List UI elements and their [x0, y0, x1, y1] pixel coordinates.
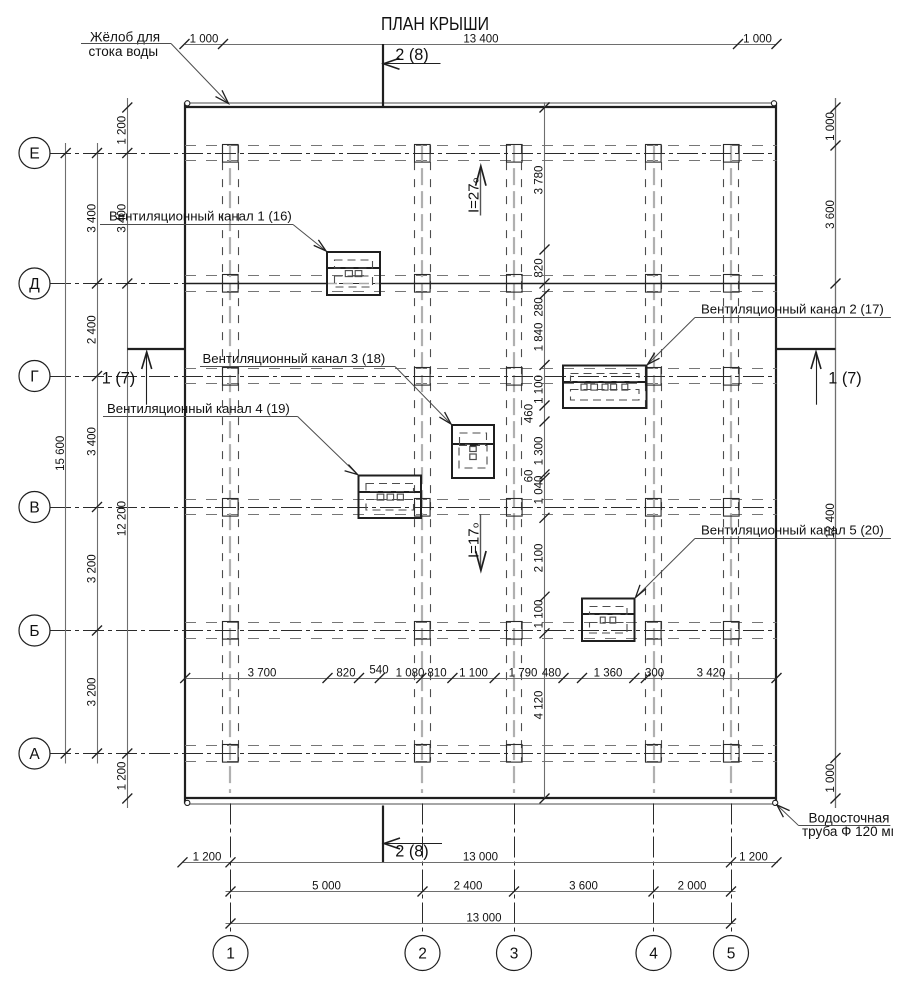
ventilation duct box 5 (20) — [582, 599, 635, 642]
svg-text:ПЛАН КРЫШИ: ПЛАН КРЫШИ — [381, 13, 489, 34]
svg-text:280: 280 — [534, 297, 546, 316]
svg-text:3 600: 3 600 — [825, 200, 837, 229]
svg-text:2: 2 — [418, 946, 427, 963]
note gutter Жёлоб для стока воды — [81, 30, 229, 104]
svg-text:Вентиляционный канал 4 (19): Вентиляционный канал 4 (19) — [107, 401, 290, 416]
dimension line right (1000/3600/12400/1000) — [825, 98, 841, 808]
svg-text:1: 1 — [226, 946, 235, 963]
axis line 3 — [514, 804, 516, 936]
grid bubble 1 — [213, 936, 248, 971]
label vent duct 2 (17) — [648, 302, 891, 365]
svg-text:2 400: 2 400 — [86, 315, 98, 344]
axis line А — [50, 753, 777, 755]
svg-text:1 000: 1 000 — [190, 34, 219, 46]
svg-text:А: А — [29, 746, 40, 763]
svg-text:2 100: 2 100 — [534, 544, 546, 573]
dimension line left axis spacings — [86, 143, 102, 764]
svg-text:I=17: I=17 — [465, 528, 482, 558]
dimension row bottom 2 (5000/2400/3600/2000) — [226, 881, 737, 897]
axis line Д — [50, 283, 777, 285]
ventilation duct box 1 (16) — [327, 252, 380, 295]
svg-text:1 300: 1 300 — [534, 437, 546, 466]
drain funnel bottom-right — [773, 800, 778, 805]
svg-text:1 000: 1 000 — [743, 34, 772, 46]
svg-text:В: В — [29, 500, 39, 517]
svg-text:Д: Д — [29, 276, 40, 293]
svg-text:2 (8): 2 (8) — [395, 46, 428, 64]
hidden wall band column 1 — [223, 145, 239, 793]
columns at grid intersections — [223, 145, 740, 763]
svg-text:2 (8): 2 (8) — [395, 843, 428, 861]
svg-text:1 200: 1 200 — [739, 852, 768, 864]
ventilation duct box 2 (17) — [563, 366, 647, 409]
svg-text:3 400: 3 400 — [86, 204, 98, 233]
label vent duct 4 (19) — [103, 401, 358, 475]
roof edge left — [184, 103, 186, 804]
note drain pipe Водосточная труба Ф 120 мм — [777, 805, 910, 840]
axis line 2 — [422, 804, 424, 936]
svg-text:1 (7): 1 (7) — [828, 370, 861, 388]
svg-text:460: 460 — [524, 404, 536, 423]
svg-text:1 040: 1 040 — [534, 476, 546, 505]
svg-text:1 200: 1 200 — [117, 116, 129, 145]
svg-text:3 600: 3 600 — [569, 881, 598, 893]
hidden wall edges row В — [185, 500, 777, 515]
label vent duct 5 (20) — [636, 523, 891, 598]
internal dimension chain y=678 (3700..3420) — [180, 665, 781, 684]
grid bubble Б — [19, 615, 50, 646]
svg-text:о: о — [470, 523, 481, 528]
grid bubble 5 — [714, 936, 749, 971]
drain funnel top-right — [771, 101, 776, 106]
drain funnel bottom-left — [185, 800, 190, 805]
hidden wall edges row Д — [185, 276, 777, 292]
hidden wall edges row А — [185, 746, 777, 762]
svg-text:1 100: 1 100 — [459, 668, 488, 680]
axis line Г — [50, 376, 777, 378]
svg-text:1 200: 1 200 — [117, 762, 129, 791]
roof gutter thin outline top — [185, 102, 777, 104]
svg-text:4 120: 4 120 — [534, 691, 546, 720]
ventilation duct box 4 (19) — [359, 476, 422, 519]
svg-text:4: 4 — [649, 946, 658, 963]
svg-text:5: 5 — [727, 946, 736, 963]
svg-text:3 780: 3 780 — [534, 166, 546, 195]
svg-text:1 100: 1 100 — [534, 375, 546, 404]
roof gutter thin outline bottom — [185, 803, 777, 805]
svg-text:труба Ф 120 мм: труба Ф 120 мм — [802, 824, 900, 839]
hidden wall edges row Г — [185, 369, 777, 384]
svg-text:Вентиляционный канал 3 (18): Вентиляционный канал 3 (18) — [203, 351, 386, 366]
grid bubble А — [19, 738, 50, 769]
svg-text:1 790: 1 790 — [509, 668, 538, 680]
section mark 2 (8) bottom — [383, 806, 442, 863]
dimension line top (1000 / 13400 / 1000) — [180, 34, 782, 50]
grid bubble Г — [19, 361, 50, 392]
svg-text:2 400: 2 400 — [454, 881, 483, 893]
roof edge top — [185, 106, 777, 108]
grid bubble 2 — [405, 936, 440, 971]
grid bubble Д — [19, 268, 50, 299]
grid bubble Е — [19, 138, 50, 169]
svg-text:3: 3 — [510, 946, 519, 963]
svg-text:Вентиляционный канал 1 (16): Вентиляционный канал 1 (16) — [109, 209, 292, 224]
svg-text:Е: Е — [29, 146, 39, 163]
axis line 4 — [653, 804, 655, 936]
roof edge bottom — [185, 797, 777, 799]
section mark 2 (8) top — [383, 44, 441, 108]
svg-text:820: 820 — [336, 668, 355, 680]
section mark 1 (7) left — [102, 349, 185, 405]
svg-text:I=27: I=27 — [465, 183, 482, 213]
axis line 1 — [230, 804, 232, 936]
hidden wall edges row Е — [185, 146, 777, 161]
hidden wall band column 3 — [507, 145, 522, 793]
svg-text:3 200: 3 200 — [86, 554, 98, 583]
svg-text:12 200: 12 200 — [117, 501, 129, 536]
dimension line left total 15600 — [55, 143, 71, 764]
svg-text:1 360: 1 360 — [594, 668, 623, 680]
roof edge right — [775, 103, 777, 804]
svg-text:13 000: 13 000 — [463, 852, 498, 864]
svg-text:3 200: 3 200 — [86, 678, 98, 707]
svg-text:540: 540 — [369, 665, 388, 677]
svg-text:2 000: 2 000 — [678, 881, 707, 893]
label vent duct 1 (16) — [100, 209, 326, 252]
slope arrow I=17 down — [465, 514, 486, 571]
svg-text:300: 300 — [645, 668, 664, 680]
svg-text:стока воды: стока воды — [89, 44, 159, 59]
dimension line left overhangs (1200/3400/12200/1200) — [117, 98, 133, 808]
svg-text:Б: Б — [29, 623, 39, 640]
svg-text:1 080: 1 080 — [396, 668, 425, 680]
svg-text:Вентиляционный канал 2 (17): Вентиляционный канал 2 (17) — [701, 302, 884, 317]
dimension row bottom 3 (13000) — [226, 913, 737, 929]
axis line Е — [50, 153, 777, 155]
title ПЛАН КРЫШИ — [381, 13, 489, 34]
svg-text:1 840: 1 840 — [534, 323, 546, 352]
svg-text:1 000: 1 000 — [825, 112, 837, 141]
svg-text:Вентиляционный канал 5 (20): Вентиляционный канал 5 (20) — [701, 523, 884, 538]
svg-text:3 400: 3 400 — [86, 427, 98, 456]
svg-text:15 600: 15 600 — [55, 436, 67, 471]
svg-text:1 100: 1 100 — [534, 600, 546, 629]
svg-text:о: о — [470, 178, 481, 183]
svg-text:3 700: 3 700 — [248, 668, 277, 680]
svg-text:13 400: 13 400 — [463, 34, 498, 46]
svg-text:810: 810 — [427, 668, 446, 680]
label vent duct 3 (18) — [200, 351, 451, 424]
svg-text:1 (7): 1 (7) — [102, 370, 135, 388]
axis line 5 — [731, 804, 733, 936]
svg-text:1 000: 1 000 — [825, 764, 837, 793]
grid bubble 4 — [636, 936, 671, 971]
axis line Б — [50, 630, 777, 632]
dimension row bottom 1 (1200/13000/1200) — [178, 852, 782, 868]
section mark 1 (7) right — [777, 349, 862, 405]
svg-text:3 420: 3 420 — [697, 668, 726, 680]
grid bubble 3 — [497, 936, 532, 971]
svg-text:Жёлоб для: Жёлоб для — [90, 30, 160, 45]
svg-text:480: 480 — [542, 668, 561, 680]
hidden wall band column 2 — [415, 145, 431, 793]
axis line В — [50, 507, 777, 509]
internal dimension chain x=544 (3780..4120) — [524, 103, 550, 804]
svg-text:1 200: 1 200 — [193, 852, 222, 864]
svg-text:820: 820 — [534, 258, 546, 277]
slope arrow I=27 up — [465, 166, 486, 215]
hidden wall edges row Б — [185, 623, 777, 639]
drain funnel top-left — [185, 101, 190, 106]
svg-text:Г: Г — [30, 369, 39, 386]
hidden wall band column 5 — [724, 145, 739, 793]
svg-text:13 000: 13 000 — [466, 913, 501, 925]
ventilation duct box 3 (18) — [452, 425, 494, 478]
svg-text:5 000: 5 000 — [312, 881, 341, 893]
hidden wall band column 4 — [646, 145, 662, 793]
roof ridge line — [185, 283, 777, 285]
grid bubble В — [19, 492, 50, 523]
